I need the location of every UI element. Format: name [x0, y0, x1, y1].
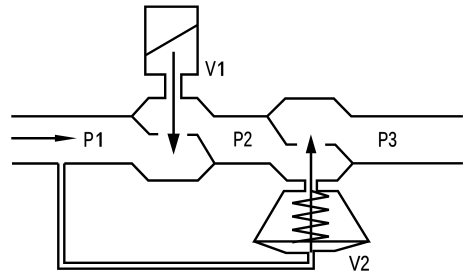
- wire feedback loop inner line: [64, 164, 308, 263]
- node V1 right seat lip: [187, 135, 214, 164]
- label P1: [85, 132, 102, 147]
- label V1: [205, 61, 223, 76]
- label P2: [234, 132, 251, 147]
- arrow V1 head: [167, 134, 179, 155]
- node V2 left seat lip: [267, 116, 297, 144]
- wire feedback loop outer line: [58, 164, 369, 269]
- label V2: [349, 256, 369, 271]
- arrow V2 head: [306, 134, 317, 153]
- label P3: [379, 132, 396, 147]
- arrow P1 stem: [11, 137, 56, 140]
- wire bottom pipe line left segment: [12, 162, 58, 164]
- valve V1 diagonal (proportional actuator): [146, 25, 198, 55]
- wire top pipe line with V1 body outline: [11, 7, 463, 117]
- arrow P1 head: [55, 135, 77, 142]
- arrow V1 stem: [172, 52, 175, 135]
- node V1 left seat lip: [132, 116, 158, 134]
- node V2 right seat lip: [325, 145, 353, 164]
- spring of valve V2: [292, 191, 329, 243]
- arrow V2 stem: [310, 152, 313, 253]
- wire bottom pipe line with V2 body outline: [64, 163, 463, 241]
